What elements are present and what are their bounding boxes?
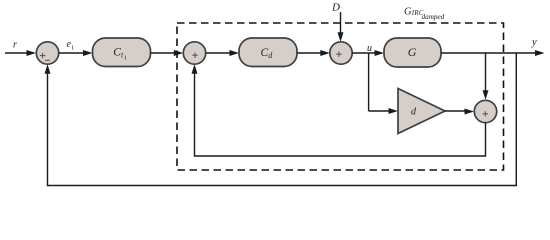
svg-text:G: G — [408, 45, 417, 59]
wire D to S3 — [338, 12, 344, 42]
svg-text:1: 1 — [124, 56, 127, 62]
wire S3 to G with branch node u — [352, 50, 384, 56]
label G_IRC_damped — [404, 7, 445, 21]
wire inner feedback S4 to S2 — [192, 64, 486, 156]
dashed box G_IRC_damped — [177, 23, 504, 170]
node e1 label — [67, 39, 75, 52]
wire G to output y — [441, 50, 545, 56]
summing junction S1 — [36, 42, 58, 64]
block Cd — [239, 38, 297, 67]
wire S1 to Ct1 — [59, 50, 93, 56]
wire u branch down to gain d — [369, 53, 398, 114]
svg-text:D: D — [331, 2, 340, 14]
svg-text:1: 1 — [71, 45, 74, 52]
summing junction S4 — [474, 100, 496, 122]
wire gain d to S4 — [445, 109, 474, 115]
svg-text:r: r — [13, 40, 17, 51]
wire tap from output down to S4 — [483, 53, 489, 100]
wire S2 to Cd — [206, 50, 239, 56]
wire Cd to S3 — [297, 50, 330, 56]
svg-text:G: G — [404, 7, 412, 18]
block Ct1 — [93, 38, 151, 67]
summing junction S3 — [330, 42, 352, 64]
gain d (triangle) — [398, 89, 445, 134]
svg-text:u: u — [367, 43, 372, 54]
svg-text:damped: damped — [422, 13, 445, 21]
wire r input — [5, 50, 36, 56]
svg-text:y: y — [531, 37, 537, 48]
wire outer feedback output to S1 — [45, 53, 517, 186]
summing junction S2 — [183, 42, 205, 64]
wire Ct1 to S2 — [151, 50, 184, 56]
block G — [384, 38, 441, 67]
